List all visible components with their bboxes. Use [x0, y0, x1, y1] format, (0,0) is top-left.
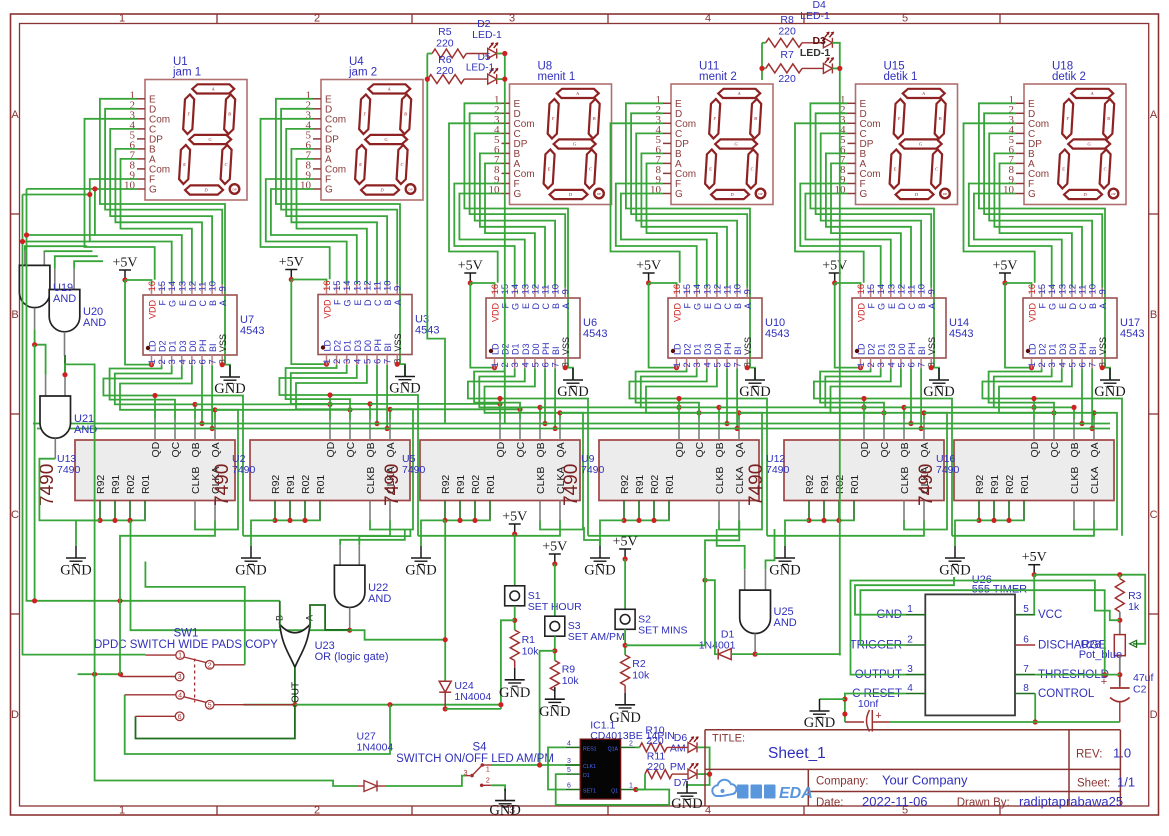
- svg-text:LD: LD: [148, 340, 158, 352]
- +5V supply for S2: [613, 535, 638, 562]
- svg-text:LED-1: LED-1: [800, 47, 830, 59]
- wire: R5 to D2, R6 to D5 connectors: [464, 54, 488, 80]
- svg-text:+5V: +5V: [279, 255, 304, 270]
- svg-text:GND: GND: [405, 563, 436, 579]
- BCD decoder U3 (CD4543): [318, 280, 439, 365]
- svg-text:D: D: [11, 709, 19, 721]
- svg-text:D3: D3: [353, 340, 363, 352]
- svg-text:OR (logic gate): OR (logic gate): [315, 651, 389, 663]
- +5V supply symbol (column 4): [636, 259, 661, 286]
- wire: elbow above U9 ground: [584, 527, 600, 546]
- svg-text:SET MINS: SET MINS: [638, 624, 687, 636]
- svg-text:RES1: RES1: [583, 747, 597, 753]
- wire: +5V to VCC and R3: [1034, 572, 1145, 647]
- svg-text:G: G: [514, 189, 522, 200]
- svg-text:1: 1: [486, 767, 490, 774]
- svg-text:jam 2: jam 2: [348, 67, 377, 79]
- wire: U12 QB/QA taps to next column: [904, 405, 1057, 416]
- svg-text:D: D: [713, 303, 723, 310]
- svg-text:A: A: [1098, 303, 1108, 309]
- wire: display U1 pin10 tap to left rail B: [27, 186, 98, 191]
- wire: clock select vertical to U13 CLKA: [120, 521, 215, 675]
- wire: U24 bottom rail to R1 branch: [445, 708, 501, 710]
- svg-text:VSS: VSS: [1098, 337, 1108, 355]
- svg-text:2: 2: [629, 740, 633, 747]
- svg-text:7490: 7490: [936, 464, 960, 476]
- wire: carry U13 QD to U2 CLKA: [243, 521, 390, 536]
- svg-text:AND: AND: [53, 293, 76, 305]
- svg-text:VSS: VSS: [743, 337, 753, 355]
- svg-text:10nf: 10nf: [858, 698, 879, 710]
- svg-text:E: E: [1058, 303, 1068, 309]
- wire bundle: U5 outputs QD-QA to U6 data inputs: [468, 369, 588, 536]
- svg-text:3: 3: [178, 674, 182, 681]
- wire: U16 reset pins R92/R91 and R02/R01 joined: [955, 518, 1024, 546]
- svg-text:D2: D2: [333, 340, 343, 352]
- wire: R3 bottom node: [1117, 612, 1122, 635]
- svg-text:220: 220: [778, 26, 796, 38]
- svg-text:R02: R02: [300, 475, 312, 494]
- wire bundle: display U4 segment pins to decoder U3: [261, 99, 401, 364]
- svg-text:9: 9: [743, 289, 754, 294]
- svg-text:4: 4: [705, 805, 711, 817]
- svg-text:220: 220: [436, 38, 454, 50]
- svg-text:R92: R92: [95, 475, 107, 494]
- svg-text:+: +: [875, 710, 881, 722]
- wire: U3 PH and BI to blanking rails: [374, 365, 389, 431]
- ground below R1: [499, 668, 530, 701]
- svg-text:2: 2: [907, 635, 913, 646]
- svg-text:LD: LD: [323, 339, 333, 351]
- wire: 555 GND pin to ground: [855, 577, 954, 615]
- svg-text:Sheet:: Sheet:: [1077, 778, 1110, 790]
- svg-text:REV:: REV:: [1076, 749, 1102, 761]
- svg-text:D3: D3: [887, 343, 897, 355]
- flip-flop IC1.1 (CD4013BE): [566, 720, 675, 800]
- OR gate U23: [275, 615, 389, 667]
- svg-text:VSS: VSS: [393, 333, 403, 351]
- wire bundle: U13 outputs QD-QA to U7 data inputs: [103, 366, 243, 536]
- ground symbol below U2: [235, 546, 266, 579]
- svg-text:D3: D3: [178, 340, 188, 352]
- wire: U12 QA wrap-around to CLKB: [904, 413, 947, 530]
- svg-text:LD: LD: [857, 343, 867, 355]
- svg-text:7490: 7490: [561, 464, 582, 506]
- svg-text:Your Company: Your Company: [882, 773, 968, 788]
- +5V supply symbol (column 5): [822, 259, 847, 286]
- svg-text:2: 2: [314, 805, 320, 817]
- svg-text:1.0: 1.0: [1113, 746, 1131, 761]
- switch S4: [396, 742, 554, 788]
- svg-text:LED-1: LED-1: [466, 63, 495, 74]
- wire: U6 PH and BI to blanking rails: [542, 369, 557, 432]
- wire: C2 bottom to control rail: [1119, 702, 1121, 722]
- svg-text:4: 4: [705, 13, 711, 25]
- svg-text:4543: 4543: [240, 325, 264, 337]
- wire: U21 output to U13 reset join: [39, 459, 100, 521]
- svg-text:R92: R92: [270, 475, 282, 494]
- svg-text:3: 3: [907, 664, 913, 675]
- svg-text:R02: R02: [125, 475, 137, 494]
- wire: +5V to U14 VDD(16) and LD(1): [835, 283, 863, 370]
- svg-text:4543: 4543: [1120, 328, 1144, 340]
- wire: +5V to S1: [514, 534, 516, 586]
- svg-text:220: 220: [436, 65, 454, 77]
- svg-text:A: A: [561, 303, 571, 309]
- svg-text:CLKA: CLKA: [1089, 467, 1101, 494]
- svg-text:R91: R91: [989, 475, 1001, 494]
- LED D2: [472, 18, 502, 59]
- svg-text:GND: GND: [389, 381, 420, 397]
- svg-text:C: C: [198, 300, 208, 307]
- svg-text:AND: AND: [368, 593, 391, 605]
- wire: SW1 pin2 up-over: [145, 562, 244, 665]
- wire: +5V to S3: [554, 564, 556, 616]
- svg-text:3: 3: [464, 770, 468, 777]
- svg-text:R91: R91: [285, 475, 297, 494]
- wire: +5V to U6 VDD(16) and LD(1): [470, 283, 497, 370]
- svg-text:+5V: +5V: [542, 540, 567, 555]
- svg-text:D0: D0: [363, 340, 373, 352]
- svg-text:QC: QC: [345, 441, 357, 457]
- svg-text:E: E: [353, 300, 363, 306]
- svg-text:D1: D1: [511, 343, 521, 355]
- svg-text:D0: D0: [713, 343, 723, 355]
- wire: carry U5 QD to U9 CLKA: [588, 521, 739, 536]
- wire: U17 PH and BI to blanking rails: [1079, 369, 1094, 432]
- svg-text:5: 5: [1023, 604, 1029, 615]
- svg-text:VSS: VSS: [218, 334, 228, 352]
- svg-text:1N4004: 1N4004: [454, 691, 491, 703]
- svg-text:GND: GND: [1094, 384, 1125, 400]
- svg-text:D7: D7: [674, 777, 688, 789]
- resistor R8 (220): [766, 14, 802, 47]
- wire: R1 to ground: [514, 661, 516, 668]
- wire: U5 QB/QA taps to next column: [540, 405, 702, 416]
- BCD decoder U6 (CD4543): [486, 284, 607, 369]
- wire: THRESHOLD right: [1035, 674, 1120, 676]
- svg-text:GND: GND: [235, 563, 266, 579]
- AND gate U25: [740, 569, 797, 654]
- svg-text:GND: GND: [499, 685, 530, 701]
- svg-text:Sheet_1: Sheet_1: [768, 745, 826, 762]
- svg-text:6: 6: [1023, 635, 1029, 646]
- svg-text:C: C: [1078, 303, 1088, 310]
- capacitor 10nf: [845, 698, 890, 732]
- svg-text:B: B: [551, 303, 561, 309]
- ground symbol below U14: [923, 368, 954, 400]
- wire: U5 reset pins R92/R91 and R02/R01 joined: [421, 518, 490, 546]
- svg-text:GND: GND: [584, 563, 615, 579]
- svg-text:QC: QC: [1049, 441, 1061, 457]
- svg-text:PH: PH: [373, 339, 383, 352]
- svg-text:QC: QC: [694, 441, 706, 457]
- svg-text:DP: DP: [1111, 192, 1115, 196]
- svg-text:GND: GND: [539, 704, 570, 720]
- wire: U10 VSS to ground: [745, 365, 755, 380]
- wire: carry U2 QD to U5 CLKA: [418, 521, 560, 536]
- svg-text:R01: R01: [485, 475, 497, 494]
- svg-text:DP: DP: [408, 188, 412, 192]
- svg-text:CLKB: CLKB: [190, 467, 202, 494]
- svg-text:2: 2: [486, 778, 490, 785]
- resistor R6 (220): [428, 54, 464, 84]
- svg-text:3: 3: [509, 13, 515, 25]
- BCD decoder U17 (CD4543): [1023, 284, 1144, 369]
- decade counter U12 (7490): [746, 420, 944, 521]
- svg-text:QD: QD: [1029, 441, 1041, 457]
- svg-text:R91: R91: [819, 475, 831, 494]
- svg-text:B: B: [917, 303, 927, 309]
- svg-text:R01: R01: [849, 475, 861, 494]
- svg-text:SWITCH ON/OFF LED AM/PM: SWITCH ON/OFF LED AM/PM: [396, 753, 554, 765]
- svg-text:LD: LD: [673, 343, 683, 355]
- resistor R7 (220): [766, 49, 802, 85]
- ground symbol below U3: [389, 365, 420, 397]
- ground below D7: [671, 781, 702, 812]
- wire: U22 output node: [131, 520, 446, 639]
- svg-text:AND: AND: [774, 617, 797, 629]
- wire: +5V to U7 VDD(16) and LD(1): [125, 280, 154, 367]
- svg-text:4: 4: [907, 683, 913, 694]
- wire: OR output extension to SW1 pin6 loop: [136, 705, 295, 739]
- svg-text:B: B: [228, 112, 231, 117]
- wire bundle: U9 outputs QD-QA to U10 data inputs: [629, 369, 767, 536]
- svg-text:Pot_blue: Pot_blue: [1079, 649, 1122, 661]
- wire: OUTPUT wrap to R3/pot node: [851, 581, 1120, 675]
- svg-text:VCC: VCC: [1038, 609, 1062, 621]
- wire: D2/D5 cathode join, down past U8: [497, 51, 508, 424]
- wire: CD4013 Q1 feedback loop to D1: [556, 774, 670, 805]
- ground symbol below U12: [769, 546, 800, 579]
- svg-text:+: +: [1101, 676, 1107, 688]
- ground symbol below U7: [214, 365, 245, 397]
- svg-text:R91: R91: [455, 475, 467, 494]
- wire: +5V to U3 VDD(16) and LD(1): [291, 280, 329, 367]
- resistor R9 (10k): [550, 661, 579, 691]
- svg-text:PH: PH: [723, 342, 733, 355]
- svg-text:D1: D1: [1048, 343, 1058, 355]
- svg-text:C: C: [935, 167, 938, 172]
- svg-text:R5: R5: [438, 26, 452, 38]
- svg-text:QB: QB: [714, 442, 726, 457]
- svg-text:F: F: [333, 299, 343, 305]
- BCD decoder U10 (CD4543): [668, 284, 789, 369]
- svg-text:9: 9: [1098, 289, 1109, 294]
- svg-text:1N4004: 1N4004: [357, 742, 394, 754]
- svg-text:G: G: [693, 303, 703, 310]
- svg-text:D0: D0: [188, 340, 198, 352]
- 7-segment display U18 (detik 2): [1003, 61, 1126, 205]
- wire: U10 PH and BI to blanking rails: [724, 369, 739, 432]
- svg-text:+5V: +5V: [636, 259, 661, 274]
- wire: U13 QA wrap-around to CLKB: [195, 410, 238, 530]
- svg-text:R92: R92: [440, 475, 452, 494]
- wire: R2 to ground: [624, 685, 626, 692]
- svg-text:R91: R91: [110, 475, 122, 494]
- svg-text:QD: QD: [150, 441, 162, 457]
- svg-text:B: B: [1088, 303, 1098, 309]
- pushbutton S2 SET MINS: [615, 609, 687, 636]
- svg-text:A: A: [393, 300, 403, 306]
- wire: pot bottom to threshold node: [1117, 656, 1122, 686]
- wire: Q1 to R11: [636, 774, 645, 789]
- svg-text:C: C: [589, 167, 592, 172]
- svg-text:D1: D1: [168, 340, 178, 352]
- svg-text:QA: QA: [385, 442, 397, 457]
- svg-text:47uf: 47uf: [1133, 672, 1154, 684]
- svg-text:D2: D2: [1038, 343, 1048, 355]
- svg-text:CLKB: CLKB: [365, 467, 377, 494]
- svg-text:CONTROL: CONTROL: [1038, 688, 1095, 700]
- svg-text:10k: 10k: [632, 670, 650, 682]
- svg-text:3: 3: [567, 758, 571, 765]
- 555 timer U26: [850, 574, 1109, 715]
- svg-text:G: G: [1048, 303, 1058, 310]
- wire: U16 QA wrap-around to CLKB: [1074, 413, 1117, 530]
- svg-text:GND: GND: [739, 384, 770, 400]
- svg-text:DP: DP: [232, 188, 236, 192]
- svg-text:detik 1: detik 1: [884, 71, 918, 83]
- svg-text:2022-11-06: 2022-11-06: [862, 794, 928, 809]
- svg-text:OUT: OUT: [291, 682, 302, 703]
- svg-text:B: B: [11, 309, 18, 321]
- resistor R11 (220): [645, 751, 672, 779]
- svg-text:D3: D3: [703, 343, 713, 355]
- svg-text:4543: 4543: [949, 328, 973, 340]
- svg-text:PH: PH: [1078, 342, 1088, 355]
- wire: blanking rail PH (spans sheet): [33, 423, 1110, 425]
- svg-text:G: G: [511, 303, 521, 310]
- wire: OR output OUT line: [291, 667, 302, 707]
- wire: U7 PH and BI to blanking rails: [199, 366, 214, 432]
- svg-text:7490: 7490: [746, 464, 767, 506]
- svg-text:B: B: [593, 116, 596, 121]
- svg-text:GND: GND: [923, 384, 954, 400]
- LED D6 (AM): [670, 732, 699, 755]
- svg-text:10k: 10k: [522, 646, 540, 658]
- svg-text:C: C: [11, 509, 19, 521]
- svg-text:5: 5: [567, 767, 571, 774]
- svg-text:LED-1: LED-1: [800, 10, 830, 22]
- svg-text:R8: R8: [780, 14, 794, 26]
- svg-text:LED-1: LED-1: [472, 29, 502, 41]
- svg-text:7: 7: [1023, 664, 1029, 675]
- wire: U2 QA wrap-around to CLKB: [370, 409, 413, 529]
- svg-text:A: A: [927, 303, 937, 309]
- 7-segment display U4 (jam 2): [300, 56, 423, 200]
- svg-text:QC: QC: [515, 441, 527, 457]
- +5V above 555: [1022, 550, 1047, 577]
- diode U27 (1N4004): [357, 731, 394, 792]
- svg-text:G: G: [343, 300, 353, 307]
- svg-text:D0: D0: [1068, 343, 1078, 355]
- svg-text:C: C: [723, 303, 733, 310]
- svg-text:BI: BI: [551, 346, 561, 355]
- resistor R2 (10k): [621, 655, 650, 686]
- wire: OR input B drop: [279, 601, 281, 628]
- svg-text:QD: QD: [495, 441, 507, 457]
- pushbutton S1 SET HOUR: [505, 586, 582, 613]
- svg-text:A: A: [1150, 109, 1158, 121]
- resistor R3 (1k): [1115, 575, 1141, 613]
- label U19: [53, 282, 76, 305]
- wire bundle: display U18 segment pins to decoder U17: [964, 103, 1106, 367]
- svg-text:QD: QD: [859, 441, 871, 457]
- AND gate U20: [49, 269, 106, 356]
- svg-text:B: B: [939, 116, 942, 121]
- svg-text:R01: R01: [664, 475, 676, 494]
- svg-text:R01: R01: [315, 475, 327, 494]
- svg-text:+5V: +5V: [458, 259, 483, 274]
- wire: R11 to D7: [672, 773, 688, 775]
- svg-text:A: A: [218, 300, 228, 306]
- LED D4: [800, 0, 834, 48]
- svg-text:1: 1: [178, 653, 182, 660]
- svg-text:9: 9: [218, 286, 229, 291]
- wire: S2 to R2, branch right to D1: [623, 629, 706, 655]
- wire: +5V to U10 VDD(16) and LD(1): [649, 283, 680, 370]
- svg-text:GND: GND: [804, 715, 835, 731]
- svg-text:GND: GND: [557, 384, 588, 400]
- svg-text:B: B: [1107, 116, 1110, 121]
- svg-text:D3: D3: [1058, 343, 1068, 355]
- svg-text:7490: 7490: [916, 464, 937, 506]
- svg-text:B: B: [404, 112, 407, 117]
- wire: R8 to D4, R7 to D3 connectors: [802, 43, 823, 69]
- svg-text:4: 4: [178, 692, 182, 699]
- svg-text:D: D: [897, 303, 907, 310]
- svg-text:7490: 7490: [212, 464, 233, 506]
- svg-text:CLKB: CLKB: [714, 467, 726, 494]
- wire: blanking rail BI (spans sheet): [37, 428, 1110, 430]
- ground left of 10nf: [804, 699, 835, 731]
- wire: R5/R6 left join: [425, 54, 445, 424]
- wire: U9 QB/QA taps to next column: [719, 405, 887, 416]
- wire: U6 VSS to ground: [563, 365, 573, 380]
- decade counter U16 (7490): [916, 420, 1114, 521]
- +5V supply for S1: [502, 510, 527, 537]
- svg-text:R92: R92: [619, 475, 631, 494]
- svg-text:CLKB: CLKB: [1069, 467, 1081, 494]
- svg-text:D2: D2: [867, 343, 877, 355]
- svg-text:VDD: VDD: [673, 303, 683, 323]
- svg-text:VDD: VDD: [148, 300, 158, 320]
- wire: U13 QB/QA taps to next column: [195, 402, 353, 413]
- ground symbol below U17: [1094, 368, 1125, 400]
- svg-text:A: A: [743, 303, 753, 309]
- svg-text:GND: GND: [671, 796, 702, 812]
- svg-text:Company:: Company:: [816, 776, 868, 788]
- wire: R9 to ground: [554, 687, 556, 691]
- svg-text:R92: R92: [974, 475, 986, 494]
- svg-text:B: B: [208, 300, 218, 306]
- svg-text:D3: D3: [812, 35, 826, 47]
- svg-text:DP: DP: [758, 192, 762, 196]
- decade counter U5 (7490): [382, 420, 580, 521]
- svg-text:BI: BI: [733, 346, 743, 355]
- svg-text:R7: R7: [780, 49, 794, 61]
- resistor R5 (220): [432, 26, 466, 58]
- wire: OR input A from U22 output: [310, 605, 350, 630]
- decade counter U2 (7490): [212, 420, 410, 521]
- svg-text:4543: 4543: [765, 328, 789, 340]
- diode D1 (1N4001): [699, 629, 736, 660]
- wire: U9 reset pins R92/R91 and R02/R01 joined: [600, 518, 669, 546]
- wire: SW1 pin3 net: [62, 364, 357, 786]
- svg-text:5: 5: [208, 702, 212, 709]
- svg-text:QA: QA: [210, 442, 222, 457]
